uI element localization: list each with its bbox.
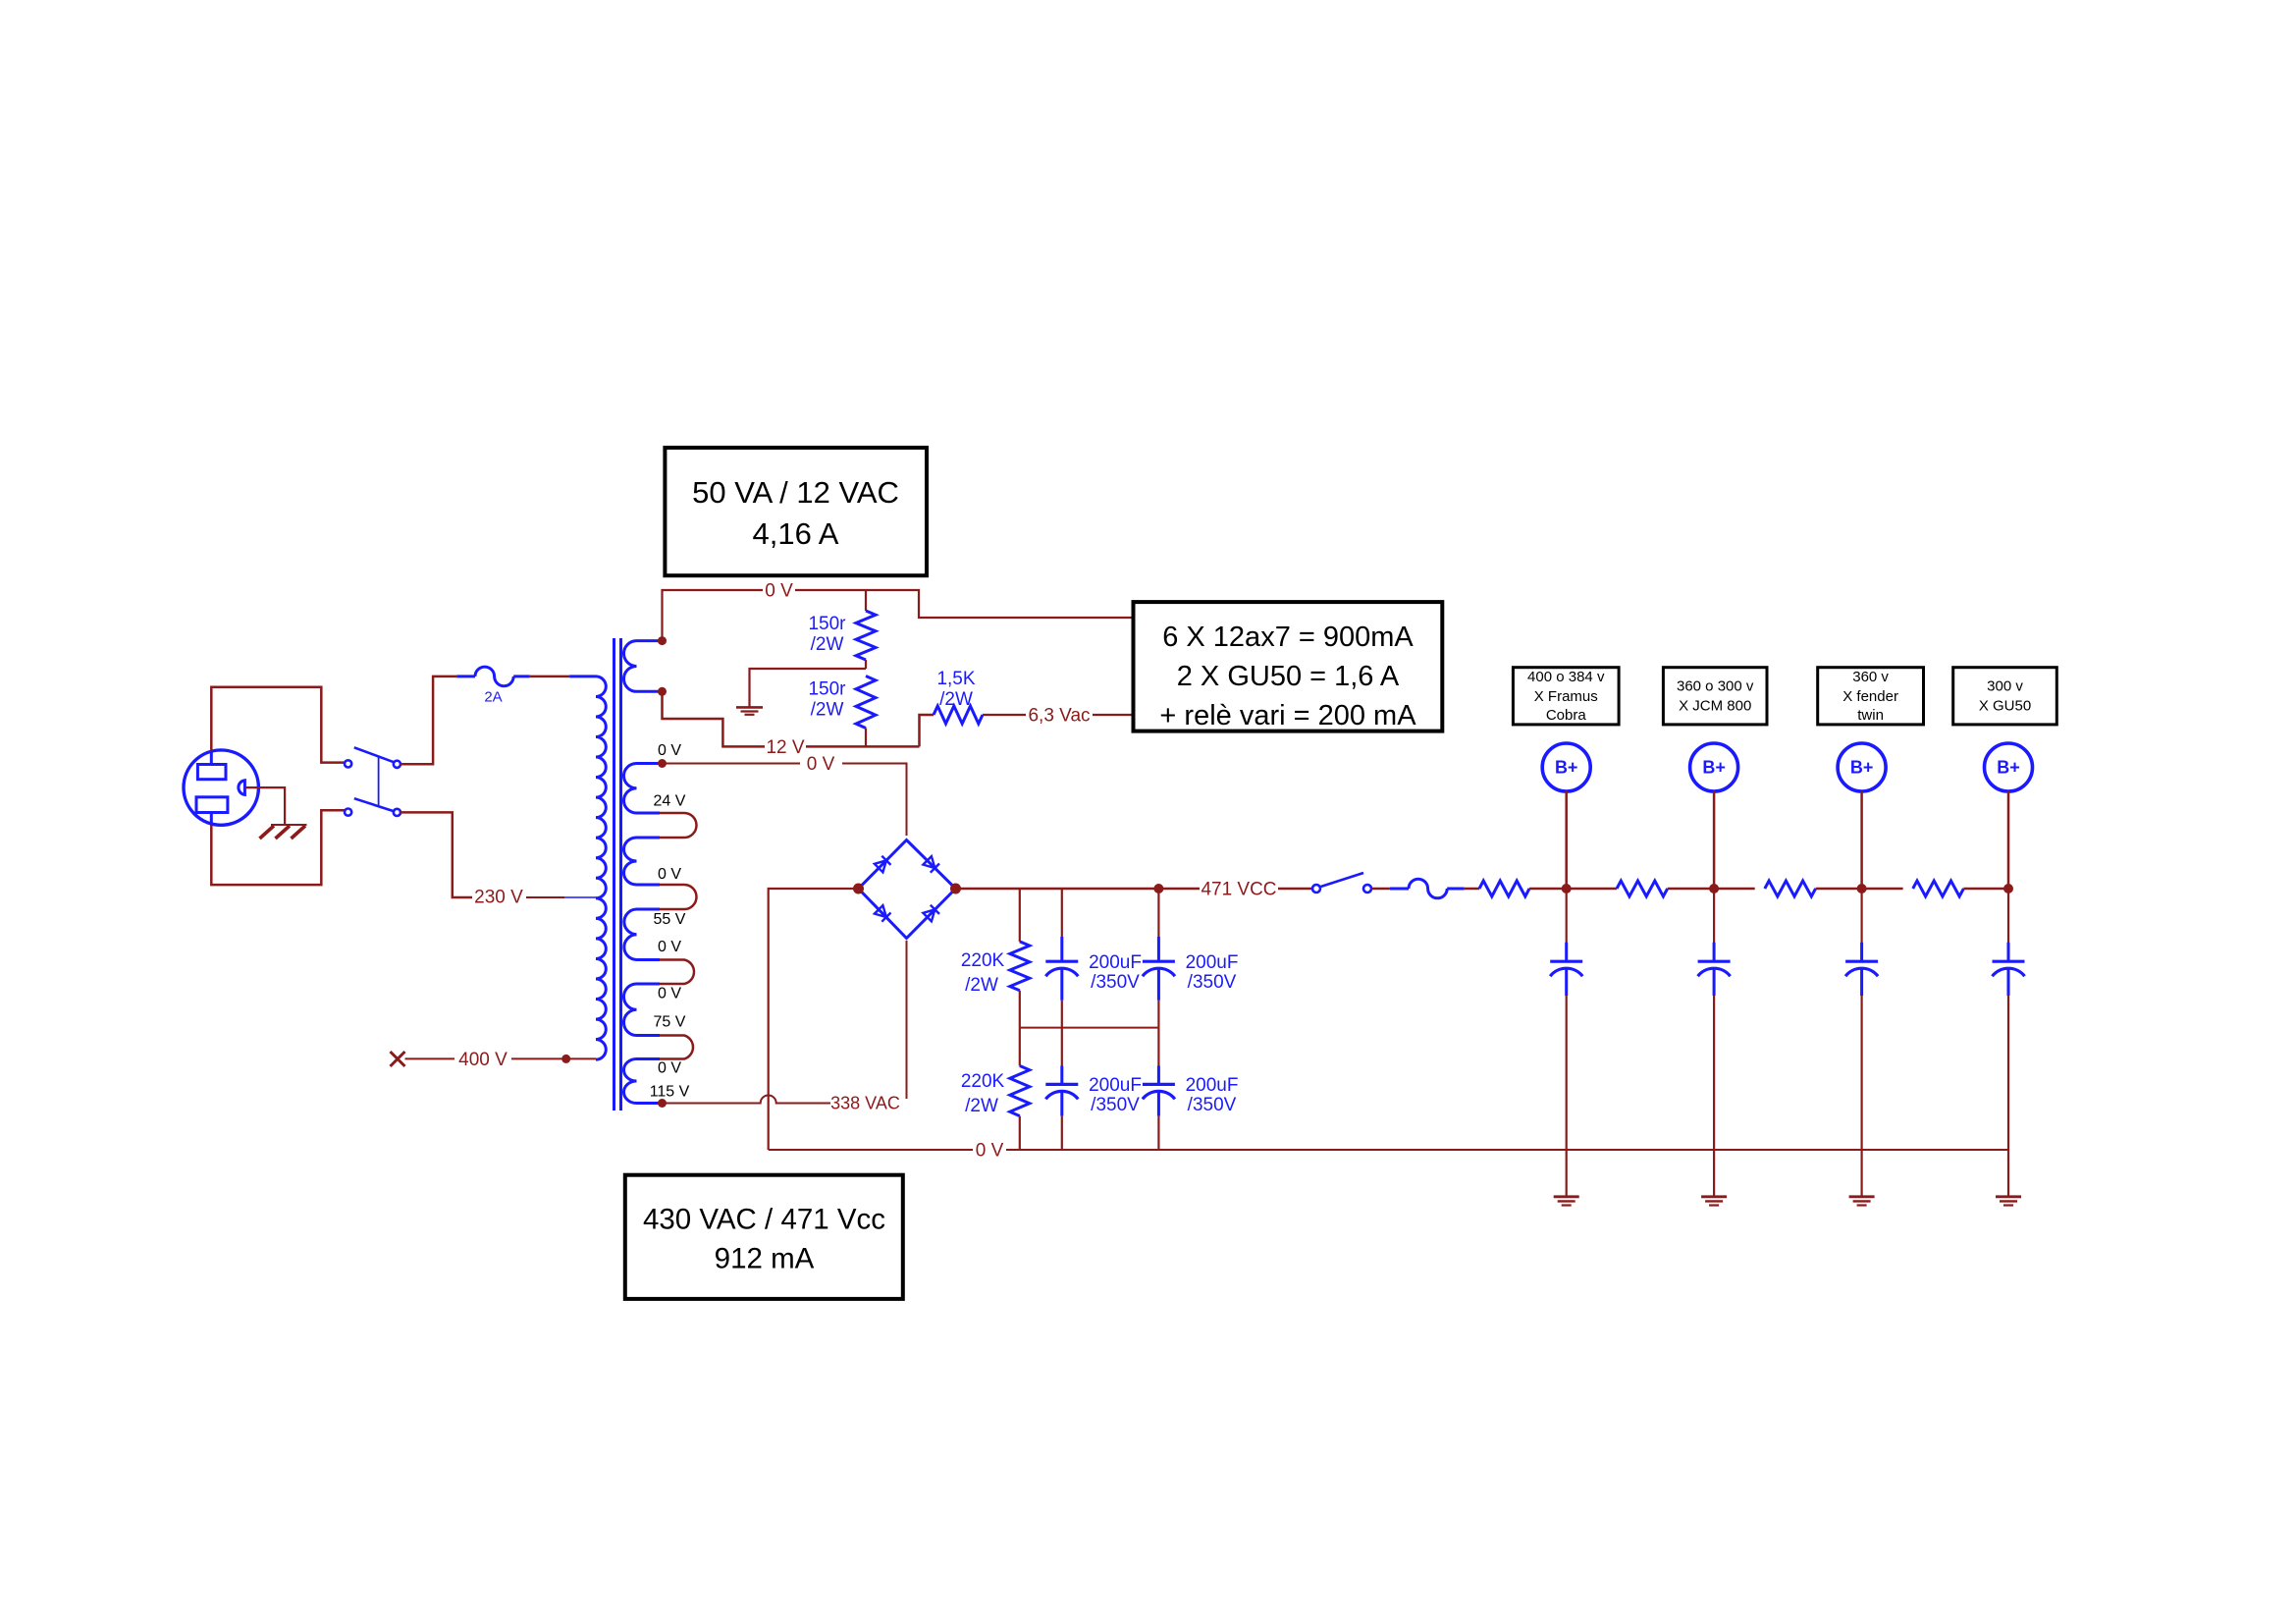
wire 0V heater rail (663, 590, 764, 641)
svg-text:400 V: 400 V (458, 1050, 507, 1070)
svg-text:X GU50: X GU50 (1979, 698, 2031, 715)
T1 HV secondary series connector loop 4 (660, 1036, 693, 1059)
resistor R7 dropper (1479, 881, 1529, 896)
wire bridge minus to 0V bottom rail (769, 889, 859, 1150)
svg-text:1,5K: 1,5K (936, 669, 975, 689)
transformer T1 primary winding (596, 677, 606, 1059)
wire plug neutral to switch (211, 810, 345, 885)
svg-text:0 V: 0 V (658, 939, 681, 955)
transformer T1 12V heater secondary winding (623, 641, 659, 692)
svg-text:/2W: /2W (939, 689, 973, 710)
no-connect X mark on 400V stub (391, 1052, 405, 1066)
wire SW1 bottom to 230V tap (400, 812, 472, 897)
capacitor C1 200uF/350V (upper bank A) (1045, 889, 1078, 1028)
junction dot filter rail (1153, 884, 1163, 893)
capacitor C3 200uF/350V (lower bank A) (1045, 1028, 1078, 1150)
svg-text:912 mA: 912 mA (715, 1243, 815, 1275)
wire 6,3 Vac to note box (1093, 714, 1134, 716)
wire B+ terminal 2 to rail (1713, 791, 1716, 886)
capacitor C5 filter (1550, 889, 1582, 1197)
wire R7 to B+ node 1 (Framus Cobra) (1529, 888, 1569, 891)
svg-text:2A: 2A (484, 689, 502, 706)
capacitor C7 filter (1845, 889, 1878, 1197)
svg-text:6 X 12ax7 = 900mA: 6 X 12ax7 = 900mA (1162, 622, 1414, 653)
junction dot B+ node 1 (Framus Cobra) (1562, 884, 1572, 893)
svg-text:50 VA / 12 VAC: 50 VA / 12 VAC (692, 475, 899, 510)
capacitor C6 filter (1698, 889, 1731, 1197)
svg-text:430 VAC / 471 Vcc: 430 VAC / 471 Vcc (643, 1204, 885, 1236)
wire B+ terminal 1 to rail (1565, 791, 1568, 886)
wire F2 to R7 (1465, 888, 1479, 891)
transformer T1 HV secondary winding section B (24V-0V) (624, 838, 661, 885)
svg-text:200uF: 200uF (1186, 1075, 1239, 1096)
svg-text:75 V: 75 V (654, 1014, 686, 1031)
note box: heater load summary (1134, 602, 1443, 731)
svg-text:/350V: /350V (1091, 1095, 1140, 1115)
svg-text:/350V: /350V (1188, 1095, 1237, 1115)
svg-text:400 o 384 v: 400 o 384 v (1527, 669, 1605, 685)
svg-text:0 V: 0 V (765, 581, 793, 602)
note box B+ output 2 description (1663, 668, 1767, 725)
diode D1 (left-top edge) (875, 860, 886, 872)
junction dot B+ node 2 (JCM 800) (1709, 884, 1719, 893)
wire X to 400V label (405, 1057, 455, 1059)
svg-text:55 V: 55 V (654, 911, 686, 928)
svg-text:0 V: 0 V (976, 1141, 1004, 1162)
T1 HV secondary series connector loop 1 (660, 813, 697, 838)
svg-text:0 V: 0 V (658, 986, 681, 1002)
svg-text:B+: B+ (1555, 758, 1578, 778)
wire SW2 to fuse F2 (1372, 888, 1390, 891)
svg-text:12 V: 12 V (766, 737, 804, 758)
diode D4 (bottom-right edge) (923, 909, 934, 921)
switch SW1 mains DPST (345, 747, 400, 816)
svg-text:+ relè vari = 200 mA: + relè vari = 200 mA (1159, 700, 1416, 731)
svg-text:X JCM 800: X JCM 800 (1679, 698, 1751, 715)
switch SW2 HV standby (1312, 873, 1371, 893)
wire 471 VCC rail from bridge (956, 888, 1201, 891)
svg-text:0 V: 0 V (658, 742, 681, 759)
svg-text:Cobra: Cobra (1546, 707, 1587, 724)
svg-text:24 V: 24 V (654, 793, 686, 810)
T1 HV secondary series connector loop 3 (660, 960, 694, 985)
diode D3 (bottom-left edge) (875, 905, 886, 917)
wire R8 to B+ node 2 (JCM 800) (1668, 888, 1716, 891)
wire plug live to switch (211, 687, 345, 763)
note box B+ output 1 description (1513, 668, 1619, 725)
capacitor C4 200uF/350V (lower bank B) (1143, 1028, 1175, 1150)
resistor R8 dropper (1617, 881, 1668, 896)
note box: 50 VA / 12 VAC 4,16 A (665, 448, 927, 575)
svg-text:X fender: X fender (1842, 688, 1898, 705)
resistor R10 dropper (1913, 881, 1964, 896)
svg-text:6,3 Vac: 6,3 Vac (1028, 706, 1090, 727)
fuse F1 (456, 667, 530, 686)
svg-text:360 o 300 v: 360 o 300 v (1677, 678, 1754, 695)
T1 HV secondary series connector loop 2 (660, 885, 697, 909)
svg-text:0 V: 0 V (807, 754, 835, 775)
wire 0V heater rail right (795, 590, 1134, 618)
chassis ground symbol (mains earth) (260, 825, 307, 839)
svg-text:220K: 220K (961, 950, 1005, 971)
svg-text:230 V: 230 V (474, 888, 523, 908)
transformer T1 HV secondary winding section D (0V-75V) (623, 984, 660, 1036)
resistor R2 150r/2W (hum balance upper) (856, 590, 876, 669)
transformer T1 core (613, 638, 615, 1110)
svg-text:B+: B+ (1702, 758, 1726, 778)
AC mains plug P1 (184, 750, 258, 825)
B+ terminal 3 (1838, 743, 1886, 791)
junction dot B+ node 4 (GU50) (2003, 884, 2013, 893)
svg-text:200uF: 200uF (1186, 952, 1239, 973)
wire R10 to B+ node 4 (GU50) (1963, 888, 2010, 891)
wire SW1 top to fuse F1 (400, 677, 456, 764)
resistor R9 dropper (1765, 881, 1816, 896)
svg-text:B+: B+ (1850, 758, 1874, 778)
junction dot bridge minus (853, 884, 864, 894)
svg-text:/2W: /2W (811, 700, 844, 721)
svg-text:150r: 150r (808, 614, 846, 634)
wire 230V label to primary tap (526, 896, 564, 898)
diode D2 (top-right edge) (923, 856, 934, 868)
svg-text:300 v: 300 v (1987, 678, 2023, 695)
svg-text:/350V: /350V (1091, 972, 1140, 993)
transformer T1 HV secondary winding section E (0V-115V) (624, 1059, 661, 1104)
junction dot 12V secondary top (0V) (658, 636, 667, 645)
svg-text:/2W: /2W (811, 634, 844, 655)
junction dot on 400V wire (561, 1055, 570, 1063)
junction dot HV secondary top (0V) (658, 759, 667, 768)
wire 0V label to bridge top (842, 764, 907, 837)
wire center-tap junction to ground (750, 669, 867, 707)
svg-text:/350V: /350V (1188, 972, 1237, 993)
transformer T1 HV secondary winding section C (0V-55V) (624, 909, 660, 960)
svg-text:360 v: 360 v (1852, 669, 1889, 685)
svg-text:X Framus: X Framus (1534, 688, 1598, 705)
wire 115V tap to 338 VAC label with hop (663, 1096, 831, 1104)
wire B+ node 2 (JCM 800) to next resistor (1714, 888, 1755, 891)
svg-text:/2W: /2W (965, 1096, 998, 1116)
wire 400V label to primary bottom (511, 1057, 596, 1059)
wire 0V bottom rail right (1006, 1149, 2008, 1151)
svg-text:338 VAC: 338 VAC (830, 1094, 900, 1113)
svg-text:0 V: 0 V (658, 866, 681, 883)
svg-text:4,16 A: 4,16 A (753, 516, 839, 551)
svg-text:471 VCC: 471 VCC (1201, 880, 1276, 900)
wire B+ node 3 (Fender twin) to next resistor (1862, 888, 1903, 891)
wire HV 0V tap to bridge AC1 (663, 763, 801, 765)
wire R9 to B+ node 3 (Fender twin) (1816, 888, 1864, 891)
ground symbol under C8 (1996, 1197, 2021, 1206)
wire 12V from secondary bottom (663, 691, 766, 746)
svg-text:2 X GU50 = 1,6 A: 2 X GU50 = 1,6 A (1177, 661, 1400, 692)
svg-text:0 V: 0 V (658, 1060, 681, 1077)
resistor R3 150r/2W (hum balance lower) (856, 677, 876, 747)
junction dot 12V secondary bottom (12V) (658, 687, 667, 696)
wire 0V bottom rail left (769, 1149, 973, 1151)
svg-text:200uF: 200uF (1089, 952, 1142, 973)
svg-text:115 V: 115 V (650, 1084, 690, 1101)
bridge rectifier B1 diamond (859, 840, 956, 939)
B+ terminal 1 (1542, 743, 1590, 791)
wire bridge AC2 down to 338 VAC (906, 941, 908, 1099)
junction dot HV secondary bottom (115V) (658, 1099, 667, 1108)
svg-text:200uF: 200uF (1089, 1075, 1142, 1096)
ground symbol under C6 (1701, 1197, 1727, 1206)
fuse F2 (1390, 879, 1465, 898)
wire B+ node 1 (Framus Cobra) to next resistor (1567, 888, 1617, 891)
transformer T1 HV secondary winding section A (0V-24V) (623, 764, 660, 814)
wire plug earth pin (244, 787, 285, 825)
B+ terminal 4 (1985, 743, 2033, 791)
wire B+ terminal 3 to rail (1860, 791, 1863, 886)
B+ terminal 2 (1690, 743, 1738, 791)
junction dot B+ node 3 (Fender twin) (1857, 884, 1867, 893)
ground symbol under C7 (1849, 1197, 1875, 1206)
ground symbol under C5 (1554, 1197, 1579, 1206)
wire fuse to primary (530, 676, 569, 678)
note box B+ output 3 description (1818, 668, 1924, 725)
resistor R6 220K/2W (lower bleeder) (1010, 1028, 1030, 1150)
svg-text:150r: 150r (808, 679, 846, 700)
resistor R4 1,5K/2W (6.3V dropper) (920, 706, 1027, 746)
wire 12V rail right (806, 745, 920, 748)
svg-text:B+: B+ (1997, 758, 2020, 778)
capacitor C2 200uF/350V (upper bank B) (1143, 889, 1175, 1028)
note box: 430 VAC / 471 Vcc 912 mA (625, 1175, 903, 1299)
note box B+ output 4 description (1953, 668, 2057, 725)
svg-text:220K: 220K (961, 1071, 1005, 1092)
wire series midpoint connector (1020, 1027, 1159, 1029)
capacitor C8 filter (1993, 889, 2025, 1197)
wire 471 VCC label to SW2 (1278, 888, 1311, 891)
svg-text:twin: twin (1857, 707, 1884, 724)
junction dot bridge plus (950, 884, 961, 894)
resistor R5 220K/2W (upper bleeder) (1010, 889, 1030, 1028)
wire B+ terminal 4 to rail (2007, 791, 2010, 886)
svg-text:/2W: /2W (965, 975, 998, 996)
earth ground symbol (heater center tap) (736, 707, 763, 714)
